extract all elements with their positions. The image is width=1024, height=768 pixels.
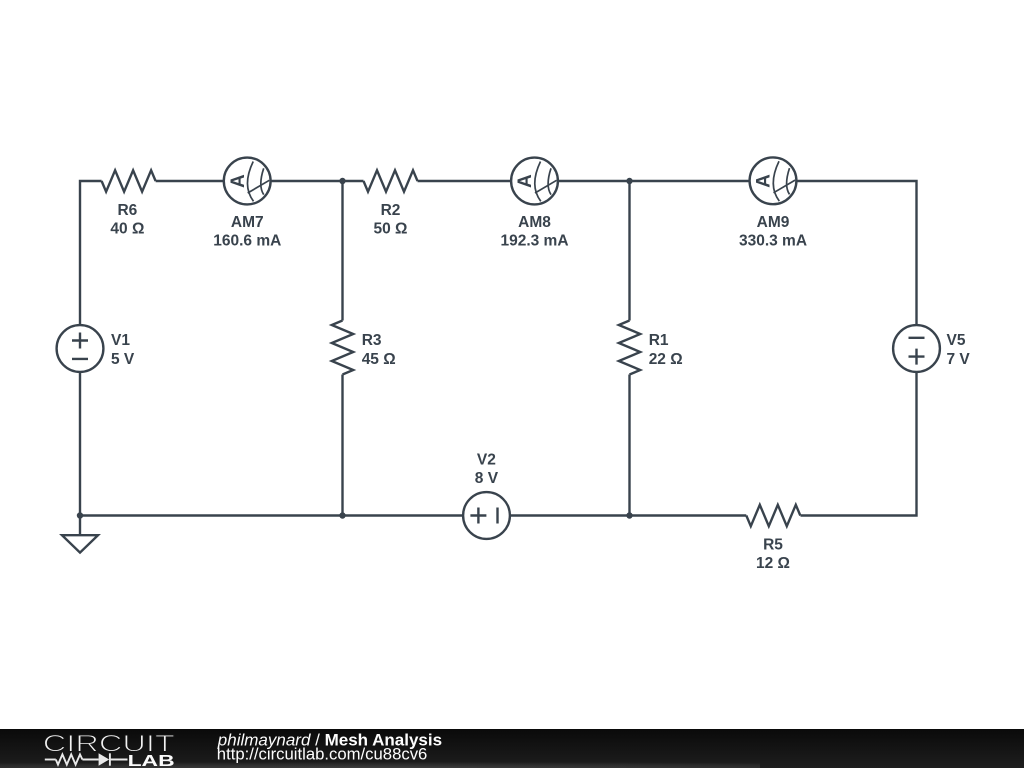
wire V5 to bottom-right corner to R5 xyxy=(801,372,917,516)
svg-text:A: A xyxy=(228,174,249,188)
svg-text:A: A xyxy=(754,174,775,188)
logo resistor-diode symbol xyxy=(45,753,128,765)
ammeter AM7 xyxy=(224,158,271,205)
wire AM8 to node B xyxy=(558,180,630,182)
svg-text:V2: V2 xyxy=(477,452,496,469)
junction node A xyxy=(339,178,345,184)
resistor R5 xyxy=(746,505,800,526)
svg-text:12 Ω: 12 Ω xyxy=(756,555,790,572)
resistor R1 xyxy=(619,321,640,375)
svg-text:192.3 mA: 192.3 mA xyxy=(500,233,568,250)
resistor R6 xyxy=(102,170,156,191)
svg-text:V1: V1 xyxy=(111,332,130,349)
svg-text:8 V: 8 V xyxy=(475,470,499,487)
svg-text:40 Ω: 40 Ω xyxy=(110,221,144,238)
svg-text:5 V: 5 V xyxy=(111,351,135,368)
svg-text:R2: R2 xyxy=(381,202,401,219)
svg-text:22 Ω: 22 Ω xyxy=(649,351,683,368)
svg-text:160.6 mA: 160.6 mA xyxy=(213,233,281,250)
resistor R2 xyxy=(343,170,512,191)
svg-text:330.3 mA: 330.3 mA xyxy=(739,233,807,250)
svg-text:R3: R3 xyxy=(362,332,382,349)
resistor R3 xyxy=(332,321,353,375)
svg-text:50 Ω: 50 Ω xyxy=(374,221,408,238)
branch wire R1 upper xyxy=(628,181,630,321)
wire R5 to V2 xyxy=(510,514,746,516)
wire AM7 to node A xyxy=(271,180,343,182)
ammeter AM9 xyxy=(750,157,797,204)
wire node B to AM9 xyxy=(630,180,750,182)
voltage source V2 xyxy=(463,492,510,539)
junction node B xyxy=(626,178,632,184)
branch wire R3 upper xyxy=(341,181,343,321)
branch wire R3 lower xyxy=(341,375,343,516)
wire V2 to node D xyxy=(343,514,464,516)
junction node D xyxy=(339,512,345,518)
svg-text:AM7: AM7 xyxy=(231,214,264,231)
svg-text:AM8: AM8 xyxy=(518,214,551,231)
wire AM9 to top-right corner down to V5 xyxy=(796,181,916,325)
svg-text:7 V: 7 V xyxy=(947,351,971,368)
junction node C xyxy=(626,512,632,518)
voltage source V5 xyxy=(893,325,940,372)
ground xyxy=(62,516,98,553)
svg-text:V5: V5 xyxy=(947,332,966,349)
svg-text:R5: R5 xyxy=(763,536,783,553)
ammeter AM8 xyxy=(511,158,558,205)
wire top-left corner and left vertical to V1 xyxy=(80,181,102,325)
svg-text:45 Ω: 45 Ω xyxy=(362,351,396,368)
footer bar xyxy=(0,729,1024,768)
svg-text:R6: R6 xyxy=(117,202,137,219)
svg-text:LAB: LAB xyxy=(128,753,175,768)
svg-text:A: A xyxy=(515,174,536,188)
junction node E xyxy=(77,512,83,518)
branch wire R1 lower xyxy=(628,375,630,516)
wire left vertical V1 to node E xyxy=(79,372,81,516)
svg-text:R1: R1 xyxy=(649,332,669,349)
voltage source V1 xyxy=(57,325,104,372)
svg-text:http://circuitlab.com/cu88cv6: http://circuitlab.com/cu88cv6 xyxy=(217,745,428,764)
svg-text:AM9: AM9 xyxy=(757,214,790,231)
wire node D to ground node E xyxy=(80,514,343,516)
wire R6 to AM7 xyxy=(156,180,224,182)
